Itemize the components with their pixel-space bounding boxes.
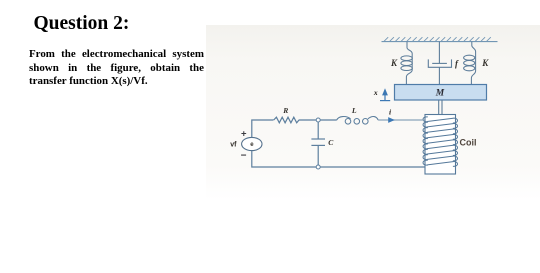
spring K left [401, 42, 412, 85]
wire inductor to coil [378, 119, 425, 121]
problem statement text [29, 48, 204, 89]
svg-text:x: x [373, 88, 378, 97]
node top junction [316, 118, 320, 122]
inductor L [337, 116, 378, 124]
capacitor C [311, 122, 325, 165]
coil windings [423, 117, 458, 166]
voltage source vf [242, 137, 262, 150]
rod from mass to coil (double line) [439, 100, 442, 115]
svg-text:L: L [351, 106, 357, 115]
mass M [395, 85, 487, 101]
svg-text:M: M [435, 89, 445, 99]
wire bottom node to coil [320, 166, 425, 168]
damper f [428, 42, 451, 85]
scanned figure background tint [206, 25, 540, 200]
wire source top to resistor [252, 120, 274, 137]
svg-text:vf: vf [230, 141, 237, 148]
current arrow i [388, 117, 395, 123]
ceiling (fixed support with hatching) [382, 37, 498, 41]
svg-text:Coil: Coil [460, 138, 477, 148]
displacement arrow x [380, 88, 390, 100]
node bottom junction [316, 165, 320, 169]
coil core rectangle [425, 115, 456, 175]
svg-text:K: K [390, 58, 398, 68]
svg-text:K: K [481, 58, 489, 68]
svg-text:−: − [241, 151, 247, 162]
wire source bottom to coil (bottom return) [252, 151, 316, 167]
resistor R [274, 117, 299, 123]
svg-text:R: R [282, 106, 288, 115]
svg-text:+: + [241, 129, 247, 140]
wire node to inductor [320, 119, 337, 121]
wire resistor to node [299, 119, 316, 121]
spring K right [464, 42, 476, 85]
heading Question 2: [34, 13, 130, 35]
